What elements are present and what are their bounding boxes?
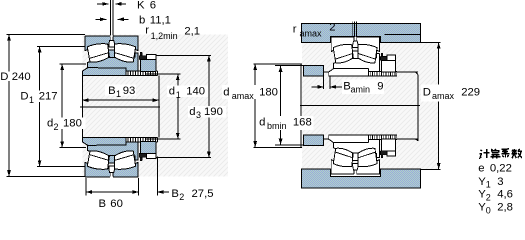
svg-text:168: 168: [293, 117, 312, 129]
svg-text:240: 240: [12, 71, 31, 83]
svg-text:B: B: [108, 85, 116, 97]
svg-text:1,2min: 1,2min: [151, 31, 178, 41]
svg-text:1: 1: [176, 90, 181, 100]
svg-text:2: 2: [179, 192, 184, 202]
svg-text:140: 140: [186, 86, 205, 98]
svg-text:e: e: [478, 163, 484, 175]
svg-text:1: 1: [116, 89, 121, 99]
svg-text:d: d: [259, 117, 265, 129]
svg-text:2,1: 2,1: [184, 26, 200, 38]
svg-text:amax: amax: [232, 91, 255, 101]
svg-text:B: B: [171, 188, 179, 200]
svg-text:2: 2: [329, 21, 335, 33]
svg-text:2: 2: [486, 193, 491, 203]
svg-text:D: D: [0, 71, 8, 83]
svg-text:180: 180: [63, 118, 82, 130]
svg-text:amax: amax: [432, 91, 455, 101]
svg-text:r: r: [145, 24, 149, 36]
svg-text:11,1: 11,1: [150, 15, 171, 27]
svg-text:d: d: [169, 86, 175, 98]
svg-text:B: B: [99, 198, 107, 210]
svg-text:3: 3: [497, 176, 503, 188]
svg-text:217: 217: [39, 91, 58, 103]
svg-text:0,22: 0,22: [490, 163, 512, 175]
svg-text:amax: amax: [300, 29, 323, 39]
svg-text:9: 9: [377, 81, 383, 93]
svg-text:60: 60: [110, 198, 123, 210]
svg-text:0: 0: [486, 205, 491, 215]
svg-text:d: d: [189, 106, 195, 118]
svg-text:6: 6: [150, 0, 156, 11]
svg-text:amin: amin: [351, 85, 371, 95]
svg-text:K: K: [137, 0, 145, 11]
svg-text:1: 1: [29, 95, 34, 105]
svg-text:D: D: [20, 91, 28, 103]
svg-text:1: 1: [486, 180, 491, 190]
svg-text:2,8: 2,8: [497, 202, 513, 214]
svg-text:bmin: bmin: [267, 121, 287, 131]
svg-text:4,6: 4,6: [497, 189, 513, 201]
svg-text:190: 190: [204, 106, 223, 118]
svg-text:r: r: [293, 23, 297, 35]
svg-text:d: d: [223, 87, 229, 99]
svg-text:d: d: [47, 118, 53, 130]
svg-text:3: 3: [196, 110, 201, 120]
svg-text:D: D: [423, 86, 431, 98]
svg-text:27,5: 27,5: [192, 188, 214, 200]
svg-text:229: 229: [461, 86, 480, 98]
svg-text:93: 93: [123, 85, 136, 97]
svg-text:2: 2: [54, 122, 59, 132]
svg-text:180: 180: [259, 87, 278, 99]
